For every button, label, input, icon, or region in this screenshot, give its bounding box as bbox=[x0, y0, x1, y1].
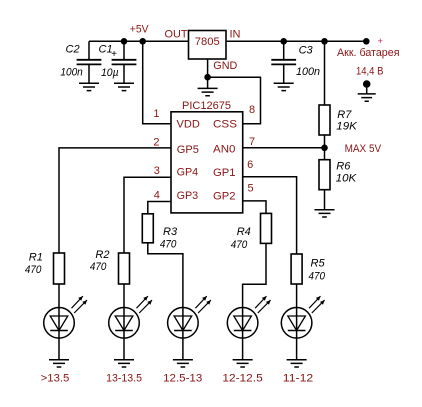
svg-text:R5: R5 bbox=[311, 257, 326, 269]
ground (7805) bbox=[198, 88, 218, 95]
node battery terminal dot bbox=[363, 38, 370, 45]
svg-text:GP4: GP4 bbox=[177, 167, 199, 179]
ground (battery) bbox=[358, 94, 376, 101]
svg-text:4: 4 bbox=[154, 189, 160, 201]
svg-text:R3: R3 bbox=[163, 226, 178, 238]
wire LED1 to ground bbox=[58, 338, 60, 359]
wire R7 to junction bbox=[324, 135, 326, 160]
wire VDD feed to pin 1 bbox=[143, 41, 171, 123]
junction dot (R7 / rail) bbox=[321, 38, 328, 45]
svg-text:6: 6 bbox=[247, 159, 253, 171]
resistor R6 bbox=[319, 160, 357, 190]
svg-text:11-12: 11-12 bbox=[283, 373, 313, 385]
svg-text:Акк. батарея: Акк. батарея bbox=[337, 47, 400, 59]
ground (LED5) bbox=[287, 360, 307, 367]
wire LED4 to ground bbox=[242, 338, 244, 359]
svg-text:14,4 В: 14,4 В bbox=[356, 65, 383, 77]
wire battery minus stub bbox=[366, 84, 368, 94]
svg-text:10µ: 10µ bbox=[101, 67, 119, 79]
ground (C2) bbox=[79, 83, 99, 90]
svg-text:+: + bbox=[378, 36, 383, 46]
svg-text:GP1: GP1 bbox=[213, 167, 236, 179]
svg-text:12-12.5: 12-12.5 bbox=[222, 373, 262, 385]
wire R4 to LED4 bbox=[243, 243, 266, 307]
svg-text:10K: 10K bbox=[336, 173, 357, 185]
wire 7805 GND stub bbox=[207, 59, 209, 88]
svg-text:GP5: GP5 bbox=[177, 144, 199, 156]
svg-text:IN: IN bbox=[230, 29, 241, 41]
wire +5V rail bbox=[89, 40, 366, 42]
svg-text:C3: C3 bbox=[299, 45, 314, 57]
capacitor C3 bbox=[271, 41, 320, 82]
wire LED5 to ground bbox=[296, 338, 298, 359]
svg-text:8: 8 bbox=[249, 104, 255, 116]
svg-text:100n: 100n bbox=[60, 67, 82, 79]
wire pin 5 GP2 to R4 bbox=[243, 201, 266, 214]
svg-text:19K: 19K bbox=[336, 121, 357, 133]
svg-text:1: 1 bbox=[153, 108, 159, 120]
svg-text:2: 2 bbox=[153, 137, 159, 149]
svg-text:OUT: OUT bbox=[165, 29, 188, 41]
wire R6 to ground bbox=[324, 190, 326, 210]
svg-text:GND: GND bbox=[213, 60, 237, 72]
resistor R3 bbox=[142, 214, 178, 251]
svg-text:5: 5 bbox=[248, 182, 254, 194]
ground (C3) bbox=[274, 83, 294, 90]
svg-text:VDD: VDD bbox=[177, 118, 200, 130]
svg-text:AN0: AN0 bbox=[213, 144, 236, 156]
junction dot (C1 / rail) bbox=[121, 38, 128, 45]
svg-text:C2: C2 bbox=[66, 43, 80, 55]
ground (LED4) bbox=[233, 360, 253, 367]
ground (C1) bbox=[114, 83, 134, 90]
resistor R4 bbox=[231, 213, 272, 251]
svg-text:470: 470 bbox=[160, 239, 177, 251]
svg-text:GP3: GP3 bbox=[177, 190, 199, 202]
wire pin 2 GP5 to R1 bbox=[59, 148, 171, 253]
svg-text:13-13.5: 13-13.5 bbox=[106, 373, 142, 385]
junction dot (C3 / rail) bbox=[280, 38, 287, 45]
wire pin 3 GP4 to R2 bbox=[124, 177, 171, 253]
wire pin 6 GP1 to R5 bbox=[243, 177, 297, 254]
resistor R2 bbox=[90, 249, 130, 284]
capacitor C2 bbox=[60, 41, 101, 82]
ground (LED2) bbox=[114, 360, 134, 367]
svg-text:R2: R2 bbox=[95, 249, 109, 261]
svg-text:12.5-13: 12.5-13 bbox=[163, 373, 202, 385]
svg-text:470: 470 bbox=[25, 264, 42, 276]
svg-text:470: 470 bbox=[309, 270, 326, 282]
wire R1 to LED1 bbox=[58, 284, 60, 308]
svg-text:470: 470 bbox=[90, 261, 107, 273]
node battery minus dot bbox=[363, 80, 371, 88]
wire pin 4 GP3 to R3 bbox=[148, 202, 171, 214]
svg-text:GP2: GP2 bbox=[213, 191, 236, 203]
ground (R6) bbox=[315, 210, 335, 217]
junction dot (7805 GND) bbox=[204, 74, 211, 81]
resistor R5 bbox=[291, 254, 326, 284]
LED D3 bbox=[168, 296, 211, 338]
LED D5 bbox=[281, 296, 324, 338]
svg-text:+5V: +5V bbox=[130, 24, 149, 36]
wire R5 to LED5 bbox=[296, 284, 298, 308]
regulator U? 7805 bbox=[165, 29, 241, 72]
svg-text:R1: R1 bbox=[29, 252, 43, 264]
wire R2 to LED2 bbox=[123, 284, 125, 308]
svg-text:7: 7 bbox=[249, 136, 255, 148]
svg-text:MAX 5V: MAX 5V bbox=[345, 143, 382, 155]
wire LED2 to ground bbox=[123, 338, 125, 359]
junction dot (R7/R6 divider) bbox=[321, 145, 328, 152]
svg-text:R4: R4 bbox=[237, 226, 251, 238]
svg-text:470: 470 bbox=[231, 239, 248, 251]
junction dot (VDD feed / rail) bbox=[139, 38, 146, 45]
resistor R1 bbox=[25, 252, 65, 284]
svg-text:3: 3 bbox=[154, 165, 160, 177]
svg-text:R7: R7 bbox=[337, 109, 352, 121]
wire LED3 to ground bbox=[182, 338, 184, 359]
op-amp U1 PIC12675 IC box bbox=[171, 100, 243, 213]
svg-text:>13.5: >13.5 bbox=[41, 372, 70, 384]
ground (LED1) bbox=[49, 360, 69, 367]
svg-text:100n: 100n bbox=[296, 66, 320, 78]
svg-text:7805: 7805 bbox=[195, 36, 220, 48]
LED D4 bbox=[227, 296, 270, 338]
svg-text:CSS: CSS bbox=[213, 118, 237, 130]
svg-text:+: + bbox=[111, 49, 117, 60]
svg-text:R6: R6 bbox=[336, 160, 351, 172]
LED D2 bbox=[109, 296, 152, 338]
wire pin 7 to divider bbox=[243, 147, 325, 149]
wire R3 to LED3 bbox=[148, 243, 183, 308]
capacitor C1 bbox=[99, 41, 137, 82]
svg-text:PIC12675: PIC12675 bbox=[182, 100, 231, 112]
LED D1 bbox=[44, 296, 87, 338]
ground (LED3) bbox=[173, 360, 193, 367]
wire rail to R7 bbox=[324, 41, 326, 105]
resistor R7 bbox=[319, 105, 357, 135]
wire GND junction to pin 8 bbox=[208, 77, 261, 124]
